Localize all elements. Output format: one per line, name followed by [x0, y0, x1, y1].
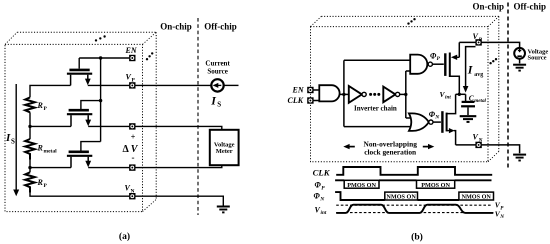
PMOS ON box 1	[344, 180, 379, 188]
PMOS ON box 2	[417, 180, 455, 188]
on-chip 3D box (a)	[5, 32, 156, 211]
inverter chain ellipsis dots	[369, 93, 372, 96]
wire ΔV- row	[30, 167, 71, 169]
svg-text:NMOS ON: NMOS ON	[462, 194, 492, 201]
waveform CLK	[336, 167, 492, 175]
ellipsis dots on right face (a)	[146, 52, 154, 60]
resistor R_metal	[25, 139, 35, 160]
wire EN row	[79, 57, 129, 59]
svg-text:Current: Current	[205, 60, 230, 68]
I_avg feed wire with arrow	[466, 47, 476, 87]
svg-text:(a): (a)	[119, 231, 130, 242]
ground capacitor	[460, 116, 477, 122]
svg-text:P: P	[44, 183, 48, 189]
node V_int	[458, 93, 461, 96]
ground voltage source	[513, 65, 526, 71]
svg-text:Inverter chain: Inverter chain	[354, 104, 397, 112]
ground (b right)	[513, 155, 526, 161]
dashed reference V_N	[336, 212, 493, 214]
NMOS ON box 2	[459, 192, 494, 200]
I_S current annotation arrow	[5, 84, 19, 196]
current source I_S	[205, 60, 238, 109]
wire riser to NOR upper input	[406, 117, 413, 119]
capacitor C_metal	[461, 94, 475, 115]
svg-text:Off-chip: Off-chip	[204, 22, 237, 32]
NMOS ON box 1	[385, 192, 418, 200]
pad CLK (b)	[307, 97, 313, 103]
svg-text:On-chip: On-chip	[473, 2, 505, 12]
svg-text:clock generation: clock generation	[364, 147, 416, 156]
svg-text:CLK: CLK	[313, 167, 331, 177]
waveform PhiN	[335, 192, 385, 200]
svg-text:R: R	[37, 178, 44, 187]
svg-text:int: int	[445, 95, 451, 101]
svg-text:N: N	[131, 188, 135, 194]
wire V_N row (b)	[456, 145, 520, 153]
wire NAND output to PMOS gate	[432, 63, 443, 65]
svg-text:S: S	[217, 101, 221, 109]
AND gate U1	[319, 85, 339, 101]
svg-text:N: N	[478, 137, 484, 143]
on-chip 3D box (b)	[311, 16, 499, 161]
chip boundary separator (a)	[197, 18, 199, 215]
wire to NOR lower input	[344, 126, 413, 128]
svg-text:int: int	[321, 210, 327, 216]
wire riser to NAND lower input	[406, 70, 411, 72]
svg-text:EN: EN	[292, 86, 305, 95]
svg-text:+: +	[131, 133, 136, 142]
svg-text:N: N	[434, 115, 440, 121]
node: R_metal / R_P2 junction	[28, 166, 31, 169]
svg-text:P: P	[44, 106, 48, 112]
pad ΔV+	[129, 123, 135, 129]
transistor M2 (middle switch)	[67, 101, 101, 127]
svg-text:P: P	[321, 185, 325, 191]
ground (a)	[217, 207, 230, 213]
arrow left	[343, 144, 355, 149]
svg-text:I: I	[467, 63, 474, 77]
svg-text:Source: Source	[528, 54, 547, 61]
EN gate bus vertical	[100, 58, 102, 142]
node EN tee	[99, 56, 102, 59]
resistor string wire (top corner to R_P1)	[30, 85, 129, 196]
voltage meter	[210, 130, 239, 165]
svg-text:Source: Source	[207, 67, 227, 75]
wire V_N row to ground	[135, 196, 223, 205]
svg-text:Meter: Meter	[216, 148, 233, 155]
svg-text:R: R	[37, 101, 44, 110]
svg-text:NMOS ON: NMOS ON	[386, 194, 416, 201]
wire AND output bus vertical	[343, 60, 345, 126]
arrow right	[423, 144, 435, 149]
pad EN (b)	[307, 87, 313, 93]
node inverter output junction	[404, 93, 407, 96]
svg-text:metal: metal	[474, 98, 486, 104]
NAND gate U2	[410, 55, 427, 74]
svg-text:PMOS ON: PMOS ON	[347, 182, 376, 189]
wire V_P row (a)	[88, 84, 129, 86]
waveform PhiP	[335, 179, 344, 181]
resistor R_P (bottom)	[25, 172, 35, 193]
svg-text:On-chip: On-chip	[160, 22, 192, 32]
pad V_P (a)	[129, 82, 135, 88]
svg-text:Off-chip: Off-chip	[514, 2, 547, 12]
wire ΔV+ row	[30, 125, 71, 127]
pad EN (a)	[129, 55, 135, 61]
transistor Q1 PMOS	[445, 42, 459, 94]
wire EN to AND	[314, 89, 320, 91]
waveform V_int	[336, 205, 493, 213]
dashed reference V_P	[336, 204, 491, 206]
svg-text:P: P	[500, 205, 504, 211]
pad V_P (b)	[475, 39, 481, 45]
wire inverter output riser	[405, 71, 407, 118]
transistor Q2 NMOS	[442, 94, 455, 145]
pad V_N (a)	[129, 193, 135, 199]
node: R_P1 / R_metal junction	[28, 125, 31, 128]
svg-text:EN: EN	[125, 46, 138, 55]
node AND output junction	[342, 93, 345, 96]
ellipsis dots on top face (b)	[407, 18, 415, 25]
voltage source	[514, 48, 548, 64]
wire CLK to AND	[314, 100, 320, 102]
svg-text:N: N	[319, 196, 325, 202]
chip boundary separator (b)	[507, 3, 509, 171]
transistor M3 (bottom switch)	[67, 142, 101, 168]
wire AND output	[340, 93, 349, 95]
NOR gate U3	[409, 113, 429, 130]
wire V_P rail (b)	[459, 42, 519, 47]
wire inverter output to riser	[400, 93, 406, 95]
svg-text:P: P	[437, 56, 441, 62]
svg-text:S: S	[11, 137, 15, 145]
resistor R_P (top)	[25, 97, 35, 112]
node M2 gate tee	[99, 99, 102, 102]
svg-text:R: R	[37, 144, 44, 153]
svg-text:avg: avg	[474, 72, 483, 78]
svg-text:N: N	[499, 214, 504, 220]
svg-text:PMOS ON: PMOS ON	[421, 182, 450, 189]
wire to NAND upper input	[344, 59, 411, 61]
ellipsis dots on top face (a)	[95, 35, 106, 41]
pad ΔV-	[129, 164, 135, 170]
transistor M1 (top switch)	[67, 58, 92, 85]
svg-text:metal: metal	[44, 149, 58, 155]
svg-text:(b): (b)	[411, 231, 423, 242]
svg-text:-: -	[132, 153, 135, 163]
wire NOR output to NMOS gate	[433, 121, 441, 123]
svg-text:I: I	[210, 94, 217, 108]
inverter chain: inverter 2	[383, 87, 395, 103]
inverter chain: inverter 1	[349, 86, 362, 103]
pad V_N (b)	[475, 142, 481, 148]
ellipsis dots on right face (b)	[489, 58, 497, 64]
svg-text:CLK: CLK	[288, 96, 304, 105]
